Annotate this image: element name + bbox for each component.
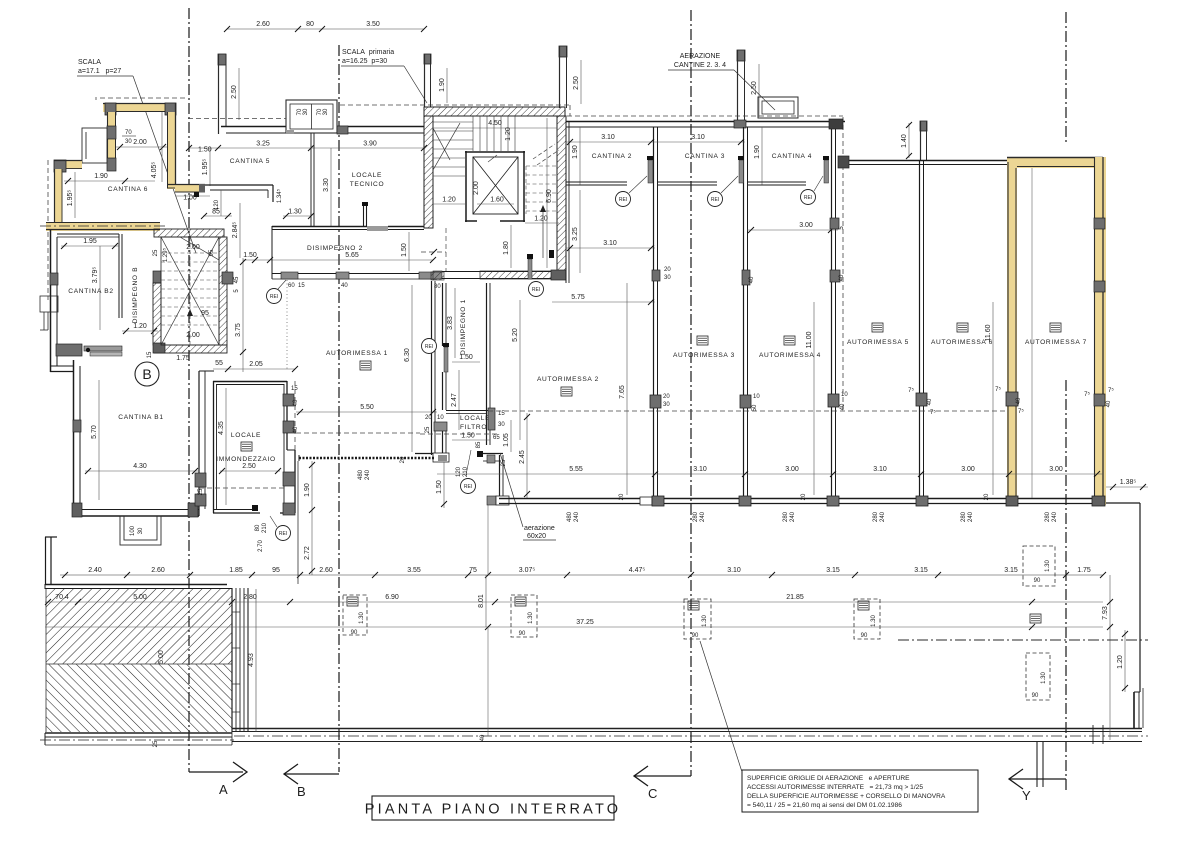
bottom wall pillars [640,497,652,505]
svg-text:3.00: 3.00 [1049,466,1063,473]
imm walls [213,381,295,513]
svg-text:AUTORIMESSA 6: AUTORIMESSA 6 [931,339,993,346]
svg-text:2.50: 2.50 [231,85,238,99]
svg-text:85: 85 [212,209,220,216]
down arrow right flight [542,212,544,258]
cantina6 yellow top wall [103,103,176,115]
svg-text:15: 15 [498,411,505,417]
svg-text:2.70: 2.70 [258,540,264,552]
divider wall x=921 (aut 5/6) [920,160,924,498]
disimpegno1 east wall [487,283,491,445]
svg-text:B: B [297,784,306,799]
right flight dashed treads [526,166,557,214]
filtro east wall down to garage bottom [500,455,504,498]
svg-text:1.30: 1.30 [1045,560,1051,572]
stairwell right hatched wall [557,116,566,271]
b1 west wall [50,360,80,517]
svg-text:2.00: 2.00 [133,139,147,146]
svg-text:7⁵: 7⁵ [1018,408,1024,415]
svg-text:480: 480 [358,469,364,480]
title box PIANTA PIANO INTERRATO [372,796,614,820]
svg-text:8.01: 8.01 [478,594,485,608]
svg-text:40: 40 [840,403,846,410]
cantina divider wall x=745 [744,127,748,498]
top dim row y=29 [227,28,424,30]
imm top dim row [213,368,295,370]
svg-text:3.15: 3.15 [1004,567,1018,574]
svg-text:15: 15 [147,351,153,358]
svg-text:1.30: 1.30 [359,612,365,624]
left flight treads horizontal [433,122,473,176]
svg-text:3.10: 3.10 [601,134,615,141]
svg-text:7⁵: 7⁵ [995,386,1001,393]
ramp hatch boundary [46,663,232,665]
svg-text:240: 240 [880,511,886,522]
garage entrance dashed box 1 [343,595,367,635]
svg-text:30: 30 [663,402,670,408]
stairB right hatched wall [219,237,227,345]
svg-text:3.07⁵: 3.07⁵ [519,567,536,574]
wall spur x=222 [218,54,226,134]
dim 1.00 [176,195,210,197]
svg-text:1.30: 1.30 [871,615,877,627]
dashed bits left of stair bottom [421,228,446,271]
dim 7.93 vertical [1109,575,1111,740]
section line Y (upper) [1065,12,1067,143]
svg-text:7⁵: 7⁵ [1084,391,1090,398]
aerazione 60x20 leader + label [500,453,523,527]
svg-text:AUTORIMESSA 5: AUTORIMESSA 5 [847,339,909,346]
b2 east wall [119,234,122,318]
svg-text:4.05⁵: 4.05⁵ [151,162,158,179]
svg-text:70.4: 70.4 [55,594,69,601]
wall spur x=563 [559,46,567,108]
dim 4.05 rot [161,112,163,182]
svg-text:37.25: 37.25 [576,619,594,626]
locale tecnico divider wall [311,133,314,227]
section arrow A [189,762,247,782]
svg-text:40: 40 [293,426,299,433]
dim 1.38 top right [1106,486,1148,488]
superficie text box [742,770,978,812]
yellow top wall autorimessa7 [1007,157,1103,168]
svg-text:aerazione: aerazione [524,525,555,532]
svg-text:2.45: 2.45 [519,450,526,464]
svg-text:40: 40 [1106,400,1112,407]
svg-text:20: 20 [425,415,432,421]
svg-text:TECNICO: TECNICO [350,181,385,188]
svg-text:= 540,11 / 25 = 21,60 mq ai se: = 540,11 / 25 = 21,60 mq ai sensi del DM… [747,802,902,809]
dim 1.20 disimpegnoB [122,330,158,332]
section line C [690,10,692,776]
wall below cantina5-left (y=185) [205,185,273,202]
svg-text:3.83: 3.83 [447,316,454,330]
elevator shaft [465,151,525,222]
svg-text:1.05: 1.05 [503,433,510,447]
leader to superficie box [700,641,742,772]
dim row y=260 [243,259,433,261]
svg-text:3.10: 3.10 [603,240,617,247]
svg-text:210: 210 [463,466,469,477]
svg-text:7⁵: 7⁵ [908,387,914,394]
svg-text:90: 90 [519,631,526,637]
dashed diagonal arrows top right [488,144,559,165]
svg-text:1.34⁵: 1.34⁵ [276,188,283,203]
svg-text:1.30: 1.30 [1041,672,1047,684]
svg-text:5.55: 5.55 [569,466,583,473]
door ticks on corridor right end [1093,725,1103,744]
corridor stub below at x=1037 [1037,742,1043,787]
svg-text:40: 40 [341,283,348,289]
wall spur x=741 [737,50,745,121]
svg-text:1.30: 1.30 [702,615,708,627]
svg-text:CANTINA 4: CANTINA 4 [772,153,812,160]
svg-text:95: 95 [209,249,215,256]
dim 8.01 vertical [485,575,487,627]
b2 door sill bottom [56,344,82,356]
dim row y=602 (6.90 / 21.85) [45,601,1103,603]
svg-text:3.00: 3.00 [785,466,799,473]
svg-text:CANTINA 6: CANTINA 6 [108,186,148,193]
dim 1.20 right wall [1124,630,1126,692]
disimpegno1 west wall [443,283,447,410]
stairwell top hatched wall [424,107,565,116]
dashed outer boundary top-left [48,97,188,300]
cantina door bars [648,160,653,183]
svg-text:25: 25 [153,740,159,747]
svg-text:3.25: 3.25 [256,141,270,148]
west thin edge below [297,461,299,584]
svg-text:1.80: 1.80 [503,241,510,255]
aut1 east wall [431,272,444,455]
svg-text:AUTORIMESSA 4: AUTORIMESSA 4 [759,352,821,359]
wall niche top-left (white box) [82,128,107,163]
dashed line above stair [188,118,286,120]
dim 2.45 rot [526,413,528,498]
niche box on cantina5 wall [286,100,337,133]
svg-text:2.47: 2.47 [451,393,458,407]
svg-text:DELLA SUPERFICIE AUTORIMESSE +: DELLA SUPERFICIE AUTORIMESSE + CORSELLO … [747,793,946,800]
REI circles + leaders [629,176,647,193]
dim 3.25 rot + 3.10 [579,190,581,273]
svg-text:CANTINE 2. 3. 4: CANTINE 2. 3. 4 [674,62,726,69]
dashed box upper right (on dim row) [1023,546,1055,586]
svg-text:60x20: 60x20 [527,533,546,540]
svg-text:1.20: 1.20 [505,127,512,141]
stair diagonals [161,237,219,345]
dash-dot horizontal mid-right y=640 [898,639,1148,641]
svg-text:90: 90 [861,633,868,639]
svg-text:4.47⁵: 4.47⁵ [629,567,646,574]
svg-text:2.40: 2.40 [88,567,102,574]
svg-text:DISIMPEGNO 2: DISIMPEGNO 2 [307,245,363,252]
svg-text:95: 95 [272,567,280,574]
svg-text:240: 240 [1052,511,1058,522]
svg-text:480: 480 [567,511,573,522]
cantina6 yellow jog wall [167,184,205,193]
cantina6 yellow bottom wall [40,222,168,231]
svg-text:6.90: 6.90 [385,594,399,601]
svg-text:30: 30 [323,108,329,115]
svg-text:1.20: 1.20 [534,216,548,223]
svg-text:3.15: 3.15 [914,567,928,574]
svg-text:2.00: 2.00 [473,181,480,195]
ticks on y575 dim row [62,572,1106,578]
cantina row top wall [566,122,845,128]
svg-text:LOCALE: LOCALE [352,172,382,179]
filtro south wall with door [415,453,503,462]
svg-text:1.50: 1.50 [243,252,257,259]
dashed box lower right [1026,653,1050,700]
svg-text:2.00: 2.00 [186,244,200,251]
svg-text:2.72: 2.72 [304,546,311,560]
dim 2.00 cantina6 [116,146,167,148]
leader from SCALA to stair B [133,76,196,253]
dim 1.95 rot cantina5 [209,148,211,186]
svg-text:SCALA primaria: SCALA primaria [342,49,394,56]
svg-text:100: 100 [130,525,136,536]
aerazione niche box top [758,97,798,118]
svg-text:1.90: 1.90 [304,483,311,497]
svg-text:1.60: 1.60 [490,197,504,204]
stairwell dims [433,127,557,129]
svg-text:5.65: 5.65 [345,252,359,259]
svg-text:21.85: 21.85 [786,594,804,601]
dim 5.20 rot (aut2) [519,300,521,440]
yellow west wall autorimessa7 (divider 6/7) [1007,162,1017,498]
svg-text:4.93: 4.93 [248,653,255,667]
svg-text:40: 40 [293,399,299,406]
svg-text:3.75: 3.75 [235,323,242,337]
b1 east wall [199,371,214,516]
svg-text:1.29⁵: 1.29⁵ [162,247,169,262]
svg-text:a=17.1 p=27: a=17.1 p=27 [78,68,121,75]
svg-text:LOCALE: LOCALE [231,432,261,439]
stairB inner box [161,237,219,345]
svg-text:90: 90 [692,633,699,639]
svg-text:40: 40 [839,274,845,281]
svg-text:10: 10 [841,392,848,398]
ramp hatch lower (\) [46,664,232,732]
dim 1.50 rot right [408,232,410,271]
svg-text:3.25: 3.25 [572,227,579,241]
svg-text:20: 20 [664,267,671,273]
ramp hatch upper (/) [46,589,232,664]
cantina divider wall x=655 [654,127,658,498]
svg-text:3.10: 3.10 [691,134,705,141]
svg-text:15: 15 [298,283,305,289]
dim 1.20 rot + 85 [220,190,222,216]
svg-text:20: 20 [801,493,807,500]
aut1 garage door heavy dotted band [299,457,435,460]
svg-text:CANTINA 3: CANTINA 3 [685,153,725,160]
garage entrance dashed box 2 [511,595,537,637]
svg-text:120: 120 [456,466,462,477]
dim 3.75 rot [242,258,244,372]
svg-text:25: 25 [198,488,204,495]
svg-text:B: B [142,366,151,382]
garage vertical dim lines [626,283,628,495]
section arrow C [634,766,691,786]
svg-text:IMMONDEZZAIO: IMMONDEZZAIO [216,456,276,463]
svg-text:ACCESSI AUTORIMESSE INTERRATE: ACCESSI AUTORIMESSE INTERRATE = 21,73 mq… [747,784,923,791]
dim 1.95 rot [74,172,76,218]
svg-text:10: 10 [753,394,760,400]
svg-text:1.20: 1.20 [133,323,147,330]
stairwell left hatched wall [424,116,433,228]
svg-text:4.30: 4.30 [133,463,147,470]
svg-text:80: 80 [306,21,314,28]
stairwell bottom wall [433,272,553,279]
svg-text:240: 240 [365,469,371,480]
svg-text:55: 55 [215,360,223,367]
svg-text:6.90: 6.90 [546,189,553,203]
svg-text:7.93: 7.93 [1102,606,1109,620]
svg-text:7⁵: 7⁵ [1108,387,1114,394]
svg-text:1.50: 1.50 [401,243,408,257]
svg-text:30: 30 [664,275,671,281]
svg-text:1.75: 1.75 [176,355,190,362]
svg-text:1.30: 1.30 [528,612,534,624]
svg-text:AERAZIONE: AERAZIONE [680,53,721,60]
svg-text:3.30: 3.30 [323,178,330,192]
svg-text:240: 240 [700,511,706,522]
b1 bottom wall [73,510,199,517]
svg-text:25: 25 [153,249,159,256]
svg-text:40: 40 [927,398,933,405]
dim 2.84 rot [239,203,241,258]
svg-text:1.20: 1.20 [1117,655,1124,669]
dim 3.79 rot [99,246,101,330]
svg-text:20: 20 [663,394,670,400]
svg-text:1.90: 1.90 [572,145,579,159]
svg-text:CANTINA 5: CANTINA 5 [230,158,270,165]
1.40 dim spur x=923 [920,121,927,160]
svg-text:AUTORIMESSA 3: AUTORIMESSA 3 [673,352,735,359]
right outer wall below garage [1103,503,1143,728]
svg-text:20: 20 [984,493,990,500]
svg-text:3.00: 3.00 [799,222,813,229]
wall spur x=427 [424,54,431,107]
svg-text:280: 280 [961,511,967,522]
dim 1.90 [64,180,155,182]
cantina6 yellow west-low corner [54,160,82,222]
svg-text:2.84⁵: 2.84⁵ [232,222,239,239]
svg-text:60: 60 [288,283,295,289]
svg-text:45: 45 [234,276,240,283]
standalone grille symbol right [1030,614,1041,623]
bottom corridor wall left part [40,728,234,745]
svg-text:4.50: 4.50 [488,120,502,127]
dim 4.93 vertical [255,589,257,732]
divider mid pillars y=395 [650,395,661,408]
aut1 west dashed edge [294,381,296,452]
ramp top wall [45,584,232,589]
svg-text:1.90: 1.90 [94,173,108,180]
long dashed line y=411 [488,410,1007,412]
section arrow Y [1009,769,1066,789]
svg-text:2.60: 2.60 [319,567,333,574]
stairB top hatched wall [154,229,224,237]
svg-text:5.00: 5.00 [133,594,147,601]
svg-text:3.50: 3.50 [366,21,380,28]
svg-text:2.60: 2.60 [151,567,165,574]
stairB right block + labels [222,272,233,284]
svg-text:20: 20 [619,493,625,500]
svg-text:AUTORIMESSA 2: AUTORIMESSA 2 [537,376,599,383]
section arrow B [284,764,339,784]
svg-text:1.50: 1.50 [459,354,473,361]
svg-text:3.55: 3.55 [407,567,421,574]
svg-text:90: 90 [1032,693,1039,699]
svg-text:1.50: 1.50 [198,147,212,154]
svg-text:240: 240 [574,511,580,522]
svg-text:3.79⁵: 3.79⁵ [92,267,99,284]
svg-text:6.30: 6.30 [404,348,411,362]
svg-text:1.90: 1.90 [754,145,761,159]
svg-text:DISIMPEGNO 1: DISIMPEGNO 1 [460,299,467,355]
svg-text:1.30: 1.30 [288,209,302,216]
svg-text:90: 90 [1034,578,1041,584]
garage bottom wall [499,499,1103,504]
cantina5 top wall [221,127,424,134]
disimpegno2 top wall [272,226,424,231]
svg-text:10: 10 [437,415,444,421]
divider pillar blocks mid (y=270) [652,270,660,281]
stairB left gray block [153,271,161,283]
svg-text:CANTINA B1: CANTINA B1 [118,414,163,421]
stair treads dashed [161,237,219,345]
svg-text:3.90: 3.90 [363,141,377,148]
top wall right section y=162 [843,161,1007,165]
garage entrance dashed box 3 [684,599,711,639]
circle B mark [135,362,159,386]
yellow east wall autorimessa7 [1094,157,1106,505]
svg-text:1.75: 1.75 [1077,567,1091,574]
1.90 rot dims [579,127,581,185]
dim 1.90/2.72 rot [311,461,313,575]
cantina inner walls y=182 [566,182,806,185]
svg-text:1.50: 1.50 [436,480,443,494]
svg-text:65: 65 [493,435,500,441]
dim 1.05 rot [510,420,512,452]
svg-text:280: 280 [873,511,879,522]
svg-text:5.00: 5.00 [158,650,165,664]
svg-text:1.38⁵: 1.38⁵ [1120,479,1137,486]
svg-text:AUTORIMESSA 7: AUTORIMESSA 7 [1025,339,1087,346]
svg-text:a=16.25 p=30: a=16.25 p=30 [342,58,387,65]
svg-text:40: 40 [480,734,486,741]
dim 3.30 rot [330,148,332,227]
garage dim row y=474 [437,473,1103,475]
svg-text:280: 280 [693,511,699,522]
svg-text:3.10: 3.10 [873,466,887,473]
door stub wall x=364 [362,202,368,226]
garage entrance dashed box 4 [854,599,880,639]
left outer wall stub above ramp [45,537,57,584]
svg-text:AUTORIMESSA 1: AUTORIMESSA 1 [326,350,388,357]
svg-text:80: 80 [255,524,261,531]
svg-text:1.95: 1.95 [83,238,97,245]
svg-text:5.70: 5.70 [91,425,98,439]
svg-text:95: 95 [201,310,209,317]
svg-text:11.00: 11.00 [806,331,813,348]
svg-text:4.35: 4.35 [218,421,225,435]
svg-text:7.65: 7.65 [619,385,626,399]
cantina divider wall x=833 [832,129,836,498]
svg-text:2.80: 2.80 [243,594,257,601]
disimpegno2 bottom wall with doors [272,226,437,279]
